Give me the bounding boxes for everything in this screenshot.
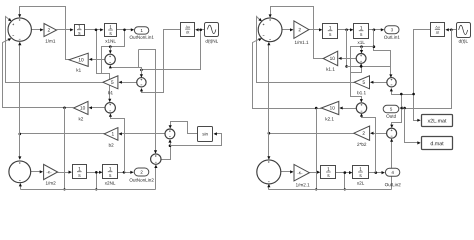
wire: theta node to Sum sin bottom: [170, 141, 172, 146]
wire: branch into Sum b1.1 bottom: [392, 90, 414, 95]
signal generator d(t)L: [457, 23, 471, 38]
sum x1-x2: [151, 154, 161, 164]
integrator 1/s (v1): [75, 25, 85, 36]
wire: k1 feedback to Sum1 top: [20, 7, 70, 60]
integrator x1NL: [105, 24, 117, 37]
wire: Sum x1-x2 output up to theta node: [161, 146, 171, 160]
wire: gain b1.1 output to Sum1L upper-left: [257, 17, 355, 83]
sum (b1 input): [137, 78, 146, 87]
wire: k2.1 node down to bottom rail: [316, 109, 318, 190]
wire: k2 node down to bottom rail: [64, 108, 66, 190]
wire: integrator to x1L with node v1L: [338, 29, 353, 31]
wire: d(t)L node down to Outd and d.mat: [401, 30, 452, 109]
wire: gain 1/m1.1 to integrator: [309, 29, 321, 31]
wire: k1.1 feedback to Sum1L top: [271, 7, 324, 59]
integrator x1L: [354, 24, 369, 39]
outport OutLin1: [385, 26, 399, 34]
sum Sum1 (mass 1): [8, 18, 31, 41]
wire: Sum theta-L output to gain 2*b2: [372, 133, 387, 135]
sum (k1.1 input): [356, 54, 366, 64]
wire: x2NL to OutNonLin2 with node x2: [118, 172, 133, 174]
wire: d(t)L to derivative L: [447, 29, 457, 31]
integrator 1/s (v2): [73, 165, 87, 179]
integrator 1/s (v1L): [323, 24, 338, 39]
wire: gain 1/m2 to integrator 1/s: [58, 172, 71, 174]
wire: Sum b1.1 output to gain b1.1: [372, 82, 387, 84]
gain 2*b2: [354, 126, 370, 140]
sum (k2.1 input): [356, 103, 366, 113]
sum theta-L: [387, 128, 397, 138]
gain k2.1: [321, 101, 339, 114]
integrator x2L: [353, 166, 369, 179]
wire: derivative L output down to x2L.mat: [414, 30, 431, 121]
wire: Sum1 output to gain 1/m1: [32, 29, 43, 31]
wire: v1 node down to Sum k2 top (passes behind b1): [97, 30, 110, 101]
wire: x2L to OutLin2 with node x2L: [369, 172, 384, 174]
wire: Sum1L output to gain 1/m1.1: [283, 29, 293, 31]
wire: Sum2 output to gain 1/m2: [31, 171, 42, 173]
wire: 2*b2 output to Sum1L bottom and Sum2L top: [269, 133, 354, 135]
integrator 1/s (v2L): [321, 166, 336, 179]
wire: Sum k2.1 output to gain k2.1: [341, 108, 357, 110]
wire: d(t)NL to derivative: [197, 29, 205, 31]
wire: gain 1/m2.1 to integrator: [310, 172, 319, 174]
gain b2: [104, 128, 118, 141]
sum Sum1L (mass 1 linear): [258, 18, 282, 42]
wire: gain 1/m1 to integrator 1/s: [57, 29, 73, 31]
integrator x2NL: [103, 165, 118, 179]
wire: bottom rail to Sum2L bottom and Sum theta-L bottom: [269, 189, 392, 191]
wire: x2 node up to Sum k2 bottom: [111, 115, 125, 173]
wire: integrator3 to x2NL with node v2: [87, 172, 102, 174]
wire: integrator1 to integrator x1NL with node v1: [85, 29, 103, 31]
wire: Sum sin output to gain b2: [120, 133, 165, 135]
outport Outd: [383, 105, 399, 112]
sum (k2 input): [105, 103, 115, 113]
outport OutLin2: [385, 168, 399, 176]
wire: Sum b1 output to gain b1: [120, 82, 137, 84]
to-file d.mat: [422, 137, 453, 150]
gain 1/m1.1: [294, 21, 309, 39]
wire: x2L node up to Sum k2.1 bottom: [362, 115, 376, 173]
wire: gain k2.1 output to Sum1L lower-left: [253, 39, 322, 109]
gain b1.1: [354, 76, 369, 89]
wire: bottom rail to Sum2 bottom and Sum x1-x2 bottom: [21, 189, 156, 191]
wire: x1L to OutLin1 with node x1L: [369, 29, 383, 31]
wire: Sum k1 output to gain k1: [91, 59, 105, 61]
wire: sin output to Sum sin top: [171, 122, 198, 134]
wire: gain b1 output to Sum1 upper-left: [6, 17, 103, 83]
sum Sum2L (mass 2 linear): [257, 160, 281, 184]
wire: x1NL to OutNonLin1 with node x1: [117, 29, 133, 31]
sum (b1.1 input): [387, 78, 396, 87]
derivative block: [181, 23, 195, 37]
gain k2: [74, 101, 88, 114]
sin block: [198, 127, 213, 142]
sum (sin coupling): [165, 129, 175, 139]
sum Sum2 (mass 2): [9, 161, 31, 183]
wire: v2 node drop to bottom rail: [96, 173, 98, 190]
wire: signal d(t)NL down to junction: [142, 30, 201, 70]
wire: Sum k1.1 output to gain k1.1: [340, 58, 357, 60]
signal generator d(t)NL: [205, 23, 219, 37]
to-file x2L.mat: [422, 115, 453, 127]
wire: Sum k2 output to gain k2: [91, 107, 105, 109]
outport OutNonLin2: [134, 168, 149, 176]
wire: gain k2 output to Sum1 lower-left: [3, 39, 74, 108]
wire: v2L node drop to bottom rail: [344, 173, 346, 190]
derivative block L: [431, 23, 445, 37]
wire: derivative output down to Sum b1 bottom: [142, 30, 181, 93]
gain k1.1: [323, 51, 338, 65]
gain 1/m1: [44, 24, 57, 37]
gain b1: [103, 76, 118, 89]
wire: x1 node down/left to Sum k1 top: [102, 30, 125, 74]
wire: integrator to x2L with node v2L: [336, 172, 351, 174]
wire: v1L node down to d-rail: [346, 30, 348, 67]
wire: Sum2L output to gain 1/m2.1: [281, 171, 293, 173]
wire: branch around Outd down to Sum theta-L top: [392, 95, 402, 127]
gain 1/m2.1: [294, 164, 309, 181]
sum (k1 input): [105, 54, 115, 64]
wire: b2 output to Sum1 bottom and Sum2 top: [20, 133, 105, 135]
wire: x1 branch to Sum x1-x2 top: [139, 50, 156, 153]
outport OutNonLin1: [134, 27, 148, 34]
wire: theta node to sin block input: [171, 134, 222, 146]
wire: x1L node down, to Sum k1.1 top and to Sum x-x top: [374, 30, 391, 77]
wire: d-rail into Sum k1.1 bottom: [347, 66, 391, 68]
gain k1: [69, 53, 88, 66]
wire: junction down into Sum b1 top: [141, 70, 143, 77]
wire: junction up-left into Sum k1 bottom: [111, 67, 142, 70]
gain 1/m2: [44, 164, 58, 179]
